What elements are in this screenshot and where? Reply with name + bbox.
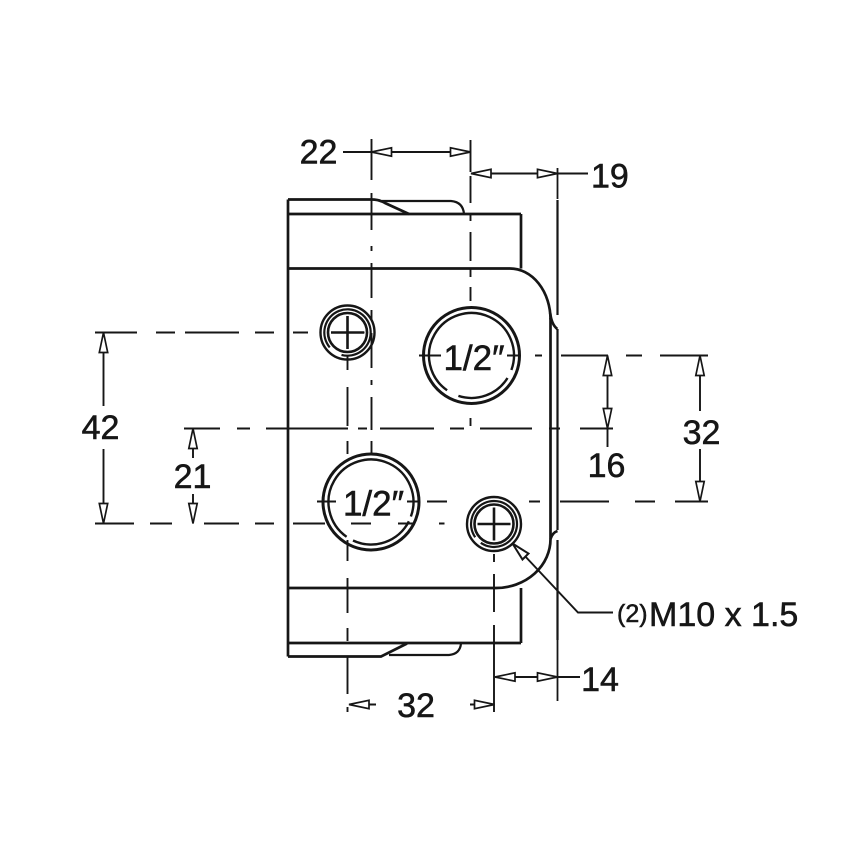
arrowhead 16 bottom: [603, 409, 611, 429]
centerline vertical hole H2: [493, 508, 495, 712]
body bottom boss rounded edge: [389, 644, 461, 656]
svg-text:19: 19: [591, 158, 629, 196]
arrowhead 19 left: [471, 169, 491, 177]
port P1 thread arc: [429, 313, 514, 398]
arrowhead 32 right top: [696, 356, 704, 376]
centerline vertical port P1: [470, 140, 472, 426]
arrowhead 32 bottom left: [349, 700, 369, 708]
arrowhead 19 right: [538, 169, 558, 177]
body upper block top line: [288, 213, 521, 216]
body lower block bottom line: [288, 642, 521, 645]
arrowhead 22 right: [451, 148, 471, 156]
arrowhead 14 left: [495, 673, 515, 681]
port P2 outer circle 1/2 bottom: [323, 454, 419, 550]
dimension line 14: [495, 676, 580, 678]
hole H2 crosshair: [478, 508, 511, 541]
centerline vertical port P2: [371, 139, 373, 453]
svg-text:32: 32: [683, 414, 721, 452]
centerline horizontal hole H2: [95, 523, 445, 525]
body main top line with rounded corner: [288, 269, 551, 320]
label 1/2 bottom background: [341, 487, 407, 520]
svg-text:1/2″: 1/2″: [343, 485, 404, 524]
svg-text:1/2″: 1/2″: [443, 339, 504, 378]
svg-text:42: 42: [82, 409, 120, 447]
dimension line 16: [607, 356, 609, 448]
hole H2 thread arc: [471, 501, 517, 547]
hole H1 outer circle M10 top: [321, 306, 375, 360]
body left edge: [287, 200, 290, 657]
arrowhead 42 bottom: [99, 504, 107, 524]
body lower block right edge: [520, 588, 523, 643]
right outer face edge upper: [556, 200, 558, 315]
arrowhead 32 bottom right: [475, 700, 495, 708]
right edge dimension extension line: [557, 168, 559, 701]
hole H1 thread arc: [324, 309, 370, 355]
centerline horizontal port P1: [419, 355, 708, 357]
centerline horizontal middle: [184, 428, 613, 430]
arrowhead 22 left: [372, 148, 392, 156]
centerline horizontal hole H1: [95, 332, 365, 334]
hole H2 outer circle M10 bottom: [467, 497, 521, 551]
dimension line 19: [471, 173, 588, 175]
svg-text:(2): (2): [617, 600, 648, 628]
svg-text:16: 16: [588, 447, 626, 485]
body bottom step edge: [288, 644, 407, 657]
arrowhead 42 top: [99, 333, 107, 353]
body top step edge: [288, 200, 409, 215]
label 1/2 top background: [441, 340, 507, 373]
arrowhead leader M10: [513, 544, 529, 560]
body upper block right edge: [520, 214, 523, 269]
body bottom-right rounded corner: [496, 539, 551, 588]
dimension line 22: [343, 151, 471, 153]
right face notch top: [550, 313, 557, 329]
svg-text:M10 x 1.5: M10 x 1.5: [649, 596, 798, 634]
body right inner edge: [549, 318, 552, 539]
right outer face edge lower: [556, 540, 558, 640]
svg-text:14: 14: [581, 661, 619, 699]
svg-text:21: 21: [174, 458, 212, 496]
body main bottom line: [288, 587, 496, 590]
dimension line 32 right: [699, 356, 701, 502]
right face notch bottom: [551, 531, 558, 539]
centerline horizontal port P2: [317, 501, 708, 503]
svg-text:22: 22: [300, 134, 338, 172]
svg-text:32: 32: [397, 687, 435, 725]
hole H2 inner circle: [475, 505, 514, 544]
hole H1 inner circle: [328, 313, 367, 352]
port P1 outer circle 1/2 top: [424, 308, 520, 404]
arrowhead 14 right: [538, 673, 558, 681]
leader line M10: [523, 554, 613, 613]
right outer face edge middle: [556, 329, 558, 530]
dimension line 42: [103, 333, 105, 524]
dimension line 21: [192, 429, 194, 524]
dimension line 32 bottom: [349, 704, 495, 706]
arrowhead 21 top: [189, 429, 197, 449]
hole H1 crosshair: [331, 316, 364, 349]
arrowhead 32 right bottom: [696, 482, 704, 502]
port P2 thread arc: [328, 459, 413, 544]
body top boss rounded edge: [382, 201, 464, 214]
arrowhead 21 bottom: [189, 504, 197, 524]
centerline vertical hole H1: [347, 316, 349, 712]
arrowhead 16 top: [603, 356, 611, 376]
